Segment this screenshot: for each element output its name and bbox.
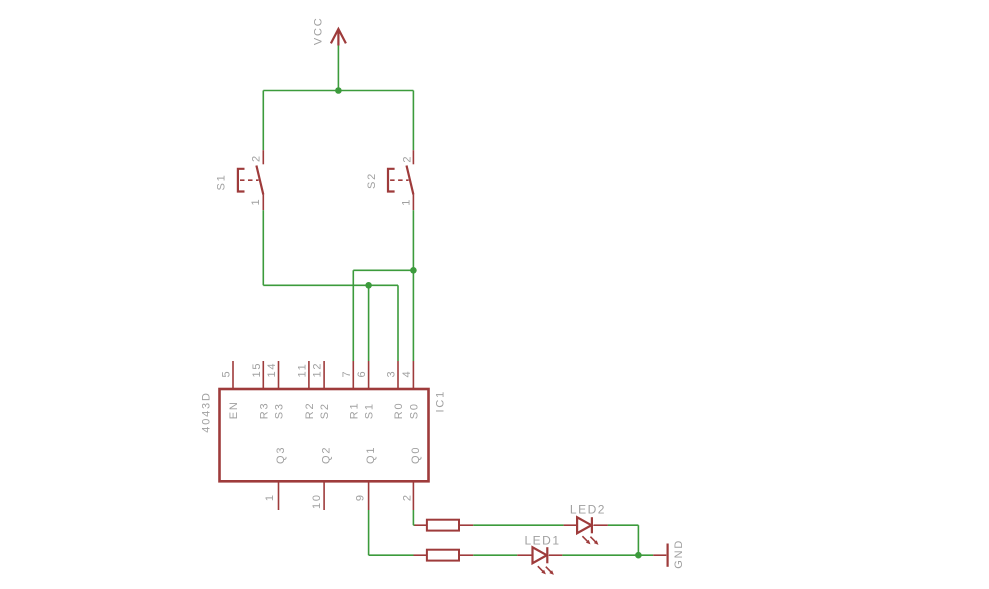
wire S1 down xyxy=(262,210,264,285)
wire rail to S2 xyxy=(412,91,414,151)
svg-text:IC1: IC1 xyxy=(435,390,447,413)
wire pin 2 down xyxy=(412,510,414,525)
pin 2 stub xyxy=(412,482,414,510)
pin 6 stub xyxy=(368,361,370,388)
wire S1 row xyxy=(263,284,398,286)
wire LED2 down xyxy=(637,525,639,555)
svg-text:R3: R3 xyxy=(258,402,270,420)
wire resistor to LED2 xyxy=(473,524,563,526)
svg-text:EN: EN xyxy=(228,400,240,419)
switch S2 xyxy=(388,150,413,210)
svg-text:15: 15 xyxy=(251,362,263,378)
wire to pin 3 xyxy=(397,285,399,361)
wire to pin 7 xyxy=(352,270,354,361)
pin 14 stub xyxy=(278,361,280,388)
wire rail to S1 xyxy=(262,91,264,151)
svg-text:VCC: VCC xyxy=(313,16,325,45)
svg-text:GND: GND xyxy=(673,539,685,569)
svg-text:2: 2 xyxy=(251,154,263,162)
svg-text:S1: S1 xyxy=(364,402,376,419)
svg-text:4043D: 4043D xyxy=(201,391,213,432)
svg-text:S1: S1 xyxy=(216,173,228,190)
svg-text:2: 2 xyxy=(402,493,414,501)
pin 7 stub xyxy=(352,361,354,388)
ground symbol GND xyxy=(653,544,667,567)
wire pin 2 corner xyxy=(413,524,415,526)
junction node at GND rail xyxy=(635,552,642,559)
wire resistor to LED1 xyxy=(473,554,517,556)
pin 3 stub xyxy=(397,361,399,388)
svg-text:R0: R0 xyxy=(393,402,405,420)
junction at VCC rail xyxy=(335,87,342,94)
svg-text:Q1: Q1 xyxy=(365,446,377,464)
pin 9 stub xyxy=(368,482,370,510)
pin 11 stub xyxy=(308,361,310,388)
svg-text:6: 6 xyxy=(356,370,368,378)
pin 4 stub xyxy=(412,361,414,388)
wire VCC stem xyxy=(337,46,339,91)
diode LED2 xyxy=(564,517,608,545)
svg-text:S3: S3 xyxy=(274,402,286,419)
svg-text:Q0: Q0 xyxy=(410,446,422,464)
svg-text:1: 1 xyxy=(264,493,276,501)
wire pin 9 row xyxy=(369,554,414,556)
svg-text:S2: S2 xyxy=(366,172,378,189)
svg-text:S2: S2 xyxy=(319,402,331,419)
svg-text:7: 7 xyxy=(341,370,353,378)
svg-text:LED2: LED2 xyxy=(570,502,606,516)
wire LED2 right xyxy=(608,524,639,526)
resistor R1 (bottom) xyxy=(414,550,474,561)
pin 12 stub xyxy=(323,361,325,388)
svg-text:R1: R1 xyxy=(348,402,360,420)
diode LED1 xyxy=(517,547,562,575)
svg-text:Q2: Q2 xyxy=(321,446,333,464)
wire S2 down xyxy=(412,210,414,270)
svg-text:LED1: LED1 xyxy=(525,533,561,547)
svg-text:14: 14 xyxy=(266,362,278,378)
wire pin 9 down xyxy=(368,510,370,555)
svg-text:1: 1 xyxy=(250,198,262,206)
svg-text:3: 3 xyxy=(386,370,398,378)
svg-text:10: 10 xyxy=(311,493,323,509)
switch S1 xyxy=(238,150,263,210)
pin 10 stub xyxy=(323,482,325,510)
wire top rail xyxy=(263,90,413,92)
pin 5 stub xyxy=(232,361,234,388)
wire S2 row xyxy=(353,269,413,271)
svg-text:11: 11 xyxy=(296,362,308,377)
svg-text:9: 9 xyxy=(354,493,366,501)
svg-text:12: 12 xyxy=(312,362,324,378)
pin 1 stub xyxy=(278,482,280,510)
svg-text:S0: S0 xyxy=(408,402,420,419)
junction node S2 row xyxy=(410,267,417,274)
wire to pin 4 xyxy=(412,270,414,361)
svg-text:Q3: Q3 xyxy=(275,446,287,464)
supply symbol VCC xyxy=(331,29,346,46)
svg-text:2: 2 xyxy=(401,155,413,163)
svg-text:4: 4 xyxy=(401,370,413,378)
IC U1 body xyxy=(220,389,429,481)
pin 15 stub xyxy=(262,361,264,388)
svg-text:R2: R2 xyxy=(304,402,316,420)
resistor R2 (top) xyxy=(415,520,474,531)
svg-text:5: 5 xyxy=(221,370,233,378)
wire LED1 to junction xyxy=(562,554,653,556)
junction node S1 row xyxy=(365,282,372,289)
wire to pin 6 xyxy=(368,285,370,361)
svg-text:1: 1 xyxy=(401,198,413,206)
